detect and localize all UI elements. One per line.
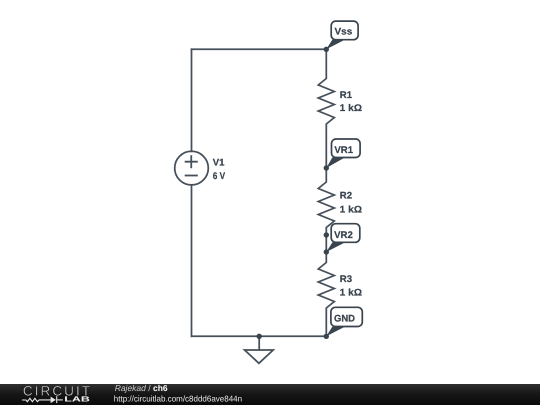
V1 plus sign [186,156,197,167]
node dot GND [324,334,329,339]
node dot VR2 [324,249,329,254]
ground symbol triangle [245,350,274,363]
node label boxes [331,21,362,326]
svg-text:LAB: LAB [64,395,90,404]
resistor R1 [318,49,334,168]
svg-text:6 V: 6 V [213,171,226,182]
node box GND [331,307,362,326]
svg-text:http://circuitlab.com/c8ddd6av: http://circuitlab.com/c8ddd6ave844n [114,393,243,403]
logo resistor symbol [22,396,63,403]
node box Vss [331,21,358,40]
svg-text:V1: V1 [213,158,225,169]
svg-text:1 kΩ: 1 kΩ [340,204,363,215]
wire top horizontal [192,48,327,50]
svg-text:R2: R2 [340,190,352,201]
junction dot mid [324,232,329,237]
ground wire stub [258,336,260,350]
svg-text:R1: R1 [340,90,353,101]
node dot VR1 [324,165,329,170]
logo diode triangle [51,397,56,404]
flag pointer VR2 [326,243,345,253]
junction dot ground [257,334,262,339]
svg-text:Rajekad / ch6: Rajekad / ch6 [115,383,168,393]
svg-text:GND: GND [334,314,355,325]
node box VR2 [331,224,360,243]
flag pointer Vss [326,40,345,50]
wire bottom horizontal [192,335,327,337]
flag pointer GND [326,327,345,337]
schematic texts [213,27,363,325]
voltage source V1 circle [175,151,209,185]
resistor R3 [318,252,334,336]
wire left vertical upper [191,49,193,151]
svg-text:VR1: VR1 [334,145,353,156]
node box VR1 [332,139,361,158]
wire VR2 segment [325,235,327,252]
svg-text:1 kΩ: 1 kΩ [340,287,363,298]
node dot Vss [324,47,329,52]
svg-text:VR2: VR2 [334,230,353,241]
V1 minus sign [186,175,197,177]
flag pointer VR1 [326,158,345,169]
svg-text:R3: R3 [340,274,352,285]
wire left vertical lower [191,185,193,336]
resistor R2 [318,168,334,235]
junction dots [257,40,345,339]
svg-text:Vss: Vss [335,27,353,38]
svg-text:1 kΩ: 1 kΩ [340,103,363,114]
footer bar [0,384,540,405]
